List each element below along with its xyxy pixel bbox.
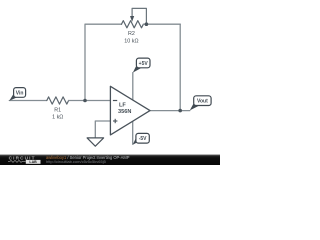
junction node output/feedback: [178, 109, 182, 113]
wire R2 wiper loop: [132, 8, 146, 24]
flag -5V: [133, 133, 150, 144]
svg-text:Vin: Vin: [16, 90, 24, 96]
wire Vin to R1: [9, 100, 47, 102]
wire output: [150, 110, 190, 112]
wire non-inverting input to ground: [95, 121, 110, 138]
svg-text:http://circuitlab.com/c5v5c5kv: http://circuitlab.com/c5v5c5kv65j5: [46, 159, 107, 164]
svg-text:+5V: +5V: [139, 61, 149, 67]
resistor R1: [47, 97, 69, 104]
wire feedback riser: [85, 24, 122, 100]
flag +5V: [133, 58, 150, 73]
svg-text:1 kΩ: 1 kΩ: [52, 115, 63, 121]
flag Vin: [9, 88, 25, 101]
op-amp U1 LF356N: [110, 86, 150, 135]
svg-text:Vout: Vout: [197, 99, 208, 105]
wire R2 right lead: [143, 23, 180, 25]
svg-text:10 kΩ: 10 kΩ: [124, 38, 138, 44]
svg-text:-5V: -5V: [139, 136, 147, 142]
flag Vout: [190, 96, 211, 111]
junction node R2 wiper: [145, 22, 149, 26]
ground: [87, 138, 104, 146]
resistor R2 (potentiometer body): [122, 21, 144, 28]
wire negative supply: [132, 121, 134, 144]
wire feedback down to output: [179, 24, 181, 110]
wire R1 to op-amp inverting input: [69, 100, 111, 102]
svg-text:LAB: LAB: [29, 160, 37, 164]
R2 wiper arrowhead: [130, 16, 134, 22]
svg-text:LF: LF: [119, 102, 126, 108]
svg-text:R2: R2: [128, 31, 135, 37]
wire positive supply: [132, 73, 134, 100]
svg-text:356N: 356N: [118, 109, 131, 115]
footer CircuitLab logo: [8, 155, 41, 164]
junction node R1/feedback: [83, 99, 87, 103]
svg-text:R1: R1: [54, 108, 61, 114]
